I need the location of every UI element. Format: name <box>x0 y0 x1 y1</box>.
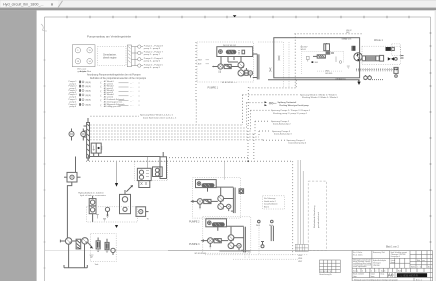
svg-text:Blatt 2: Blatt 2 <box>264 205 269 208</box>
svg-text:Grenzlastver.: Grenzlastver. <box>103 53 117 56</box>
svg-text:Speisung Pumpe 3: Speisung Pumpe 3 <box>272 131 291 133</box>
svg-text:B05: B05 <box>315 62 318 64</box>
relief valve near bus <box>261 242 264 248</box>
svg-text:diesel engine: diesel engine <box>103 57 117 59</box>
svg-text:pump 4 - pump 5: pump 4 - pump 5 <box>144 67 161 69</box>
down arrow under box <box>358 80 360 82</box>
svg-text:Bezeichnung Nr.: Bezeichnung Nr. <box>320 273 333 276</box>
right-side accessory components <box>392 44 404 77</box>
svg-text:W06: W06 <box>298 258 302 260</box>
aux valve <box>244 71 253 75</box>
tab bar strip <box>0 0 436 8</box>
bus lines right <box>228 54 259 79</box>
svg-text:PUMPE 1: PUMPE 1 <box>208 86 219 89</box>
dashed box C <box>86 207 137 222</box>
valve box A (left feed) <box>64 172 81 237</box>
corner squiggle mark <box>41 24 47 31</box>
svg-text:pump 6: pump 6 <box>70 106 78 108</box>
svg-text:Name: Name <box>371 276 375 278</box>
svg-text:pump 2 - pump 7: pump 2 - pump 7 <box>144 54 161 56</box>
valve box E <box>136 207 149 221</box>
svg-text:Bl. 1: Bl. 1 <box>428 266 431 268</box>
winch drum <box>362 55 383 61</box>
svg-text:B02 B03: B02 B03 <box>335 79 342 81</box>
dashed box B with relief valves <box>91 234 117 262</box>
svg-text:B05 B05: B05 B05 <box>325 73 332 75</box>
svg-text:{: { <box>101 89 102 93</box>
svg-text:boost-fluid pump 4: boost-fluid pump 4 <box>289 142 307 145</box>
svg-text:Spülung Tankanteil: Spülung Tankanteil <box>278 101 297 104</box>
svg-text:B02: B02 <box>346 32 349 34</box>
dotted interconnect bundle <box>86 34 362 255</box>
cooler block F1 <box>137 168 151 187</box>
cooler block F2 <box>153 167 163 177</box>
svg-text:pump 3 - pump 6: pump 3 - pump 6 <box>144 61 161 63</box>
svg-text:Tank: Tank <box>95 264 99 266</box>
svg-text:— ··: — ·· <box>130 105 134 107</box>
svg-text:Name: Name <box>398 270 402 272</box>
svg-text:— ··: — ·· <box>130 83 134 85</box>
svg-text:1 : 10: 1 : 10 <box>418 266 422 268</box>
faint horizontal divider <box>45 250 431 252</box>
small black arrow above dashed box B <box>115 225 118 228</box>
W markers top right <box>256 220 273 241</box>
small hose symbol <box>270 68 272 72</box>
svg-text:— ··: — ·· <box>130 91 134 93</box>
main pump circles with coupling <box>60 238 93 249</box>
svg-text:W07: W07 <box>298 261 302 263</box>
svg-text:Definition of the proportional: Definition of the proportional selection… <box>90 77 147 80</box>
svg-text:(B)(S): (B)(S) <box>86 82 92 84</box>
svg-text:(B)(S): (B)(S) <box>86 86 92 88</box>
main supply line <box>76 157 161 173</box>
svg-text:PUMPE 2: PUMPE 2 <box>189 220 200 223</box>
ruler ticks left frame <box>44 60 46 268</box>
manifold bar <box>84 118 90 158</box>
svg-text:Speisung Pumpe 2: Speisung Pumpe 2 <box>271 121 290 123</box>
black down arrow near cooler <box>115 157 148 187</box>
svg-text:Angabe Wert: Angabe Wert <box>80 70 91 73</box>
svg-text:W05 W06: W05 W06 <box>343 38 351 40</box>
tall narrow box G <box>160 152 167 179</box>
toolbar gray band <box>0 8 436 11</box>
hydraulic motor <box>354 53 362 62</box>
tank symbol <box>64 244 87 268</box>
svg-text:Zusatzfunktionen: Zusatzfunktionen <box>264 203 278 206</box>
svg-text:Anordnung Pumpenverteilergetri: Anordnung Pumpenverteilergetriebe der mi… <box>87 74 141 77</box>
svg-text:W1 B1 W2 B2 ——: W1 B1 W2 B2 —— <box>222 82 238 84</box>
svg-text:a: a <box>357 270 358 272</box>
filter pair (two stacked circles) <box>89 196 96 222</box>
svg-text:Radlaufwerk Verrohrung: Radlaufwerk Verrohrung <box>313 205 316 228</box>
brake solenoid dark block <box>352 46 356 51</box>
svg-text:PUMPE 3: PUMPE 3 <box>189 243 200 246</box>
ruler tick marks top <box>67 16 409 18</box>
coupling triangles <box>388 57 394 60</box>
diagonal arrow (up-right) <box>126 185 132 192</box>
svg-text:— ··: — ·· <box>130 100 134 102</box>
svg-text:{: { <box>101 80 102 84</box>
right faint page edge <box>435 10 436 281</box>
vertical dashed box with rotated text <box>308 181 326 251</box>
svg-text:(B)(S): (B)(S) <box>86 100 92 102</box>
main pumps <box>231 57 244 77</box>
svg-text:{: { <box>101 93 102 97</box>
vertical bus to bottom manifold <box>295 160 308 251</box>
svg-text:LTM 1800: LTM 1800 <box>373 265 380 267</box>
bottom dashed connects <box>205 223 308 259</box>
check valve components left of manifold <box>69 129 86 141</box>
PTO shaft bar <box>127 45 131 67</box>
svg-text:Speisung Pumpe 4: Speisung Pumpe 4 <box>287 140 306 142</box>
svg-text:1 2 3 4 5 6 7 8: 1 2 3 4 5 6 7 8 <box>320 271 331 273</box>
svg-text:Flushing Wässrigen Druckl.pump: Flushing Wässrigen Druckl.pump <box>280 104 310 107</box>
engine dashed box (Grenzlastverstellung diesel engine) <box>98 47 127 66</box>
left gray sidebar <box>0 10 37 281</box>
svg-text:Blatt 1 von 2: Blatt 1 von 2 <box>386 246 399 249</box>
dashed enclosure <box>197 42 254 82</box>
LIEBHERR logo <box>397 273 427 277</box>
note dashed box <box>263 196 285 209</box>
svg-text:pump 1 - pump 8: pump 1 - pump 8 <box>144 48 161 50</box>
ruler marker triangle <box>233 15 237 17</box>
pump pair labels <box>144 45 164 69</box>
svg-text:Winde 1: Winde 1 <box>374 39 383 42</box>
svg-text:B09: B09 <box>198 64 201 66</box>
svg-text:W1 B1 W2 B2: W1 B1 W2 B2 <box>195 253 206 255</box>
svg-text:Ventile siehe 2: Ventile siehe 2 <box>264 200 276 203</box>
svg-text:Speisung Motor Winde 1,2,3,4 u: Speisung Motor Winde 1,2,3,4 u. 5 <box>140 113 174 116</box>
svg-text:Flushing Winde 4 / Winde 5 / W: Flushing Winde 4 / Winde 5 / Winde 6 <box>302 97 339 99</box>
gearbox (Vert-case gear box) <box>72 45 95 67</box>
svg-text:boost fluid motor winch 1,2,3,: boost fluid motor winch 1,2,3,4 a. 5 <box>143 116 177 119</box>
pressure valve block under manifold <box>91 143 102 156</box>
controller box <box>217 45 253 64</box>
svg-text:W05: W05 <box>256 225 260 227</box>
svg-text:Flushing pump 2 / pump 3 / pum: Flushing pump 2 / pump 3 / pump 4 <box>273 113 307 115</box>
hand pump left <box>212 64 231 73</box>
node arrows at label cluster <box>265 101 267 106</box>
svg-text:∅∅: ∅∅ <box>363 78 367 81</box>
dashed verticals between P1 and Winde <box>258 42 289 88</box>
dashed sub-box <box>362 46 401 64</box>
svg-text:— ··: — ·· <box>130 87 134 89</box>
svg-text:Pumpenanbau am Verteilergetrie: Pumpenanbau am Verteilergetriebe <box>87 35 131 39</box>
cooler dashed box F top right of cluster <box>135 161 168 180</box>
svg-text:(B)(S): (B)(S) <box>86 95 92 97</box>
ruler ticks right frame <box>430 33 432 242</box>
small revision table <box>320 260 341 273</box>
svg-text:W0 101 W0 102: W0 101 W0 102 <box>223 45 236 47</box>
tall filter box D <box>120 190 131 214</box>
circle with arrow inside C <box>96 207 110 221</box>
fan-out to 4 pump circles <box>132 45 144 67</box>
svg-text:Nur Teilmenge: Nur Teilmenge <box>264 198 276 200</box>
solenoid valve dark <box>386 47 391 51</box>
svg-text:part wheeled unit: part wheeled unit <box>317 212 320 228</box>
Winde1 interior details <box>301 38 352 81</box>
svg-text:A6 luffing gear trav.: A6 luffing gear trav. <box>104 105 122 108</box>
svg-text:boost-fluid pump 2: boost-fluid pump 2 <box>273 123 291 126</box>
svg-text:A0: A0 <box>388 273 394 278</box>
svg-text:(B)(S): (B)(S) <box>86 105 92 107</box>
gauges <box>364 75 372 80</box>
svg-text:von: von <box>422 260 425 262</box>
svg-text:{: { <box>101 98 102 102</box>
svg-text:Name: Name <box>391 262 395 264</box>
svg-text:{: { <box>101 85 102 89</box>
active tab <box>1 1 58 8</box>
svg-text:LIEBHERR: LIEBHERR <box>401 273 419 277</box>
connector comb row <box>356 68 398 71</box>
svg-text:{: { <box>101 103 102 107</box>
svg-text:Tk: Tk <box>147 219 149 221</box>
svg-text:(B)(S): (B)(S) <box>86 91 92 93</box>
junction dot <box>247 160 249 162</box>
svg-text:— ··: — ·· <box>130 96 134 98</box>
svg-text:boost-fluid pump 3: boost-fluid pump 3 <box>274 133 292 136</box>
svg-text:W09: W09 <box>198 60 202 62</box>
svg-text:Hyd_circuit_ltm_1800_...: Hyd_circuit_ltm_1800_... <box>3 3 44 7</box>
pump list rows <box>69 70 141 108</box>
svg-text:W05: W05 <box>298 255 302 257</box>
